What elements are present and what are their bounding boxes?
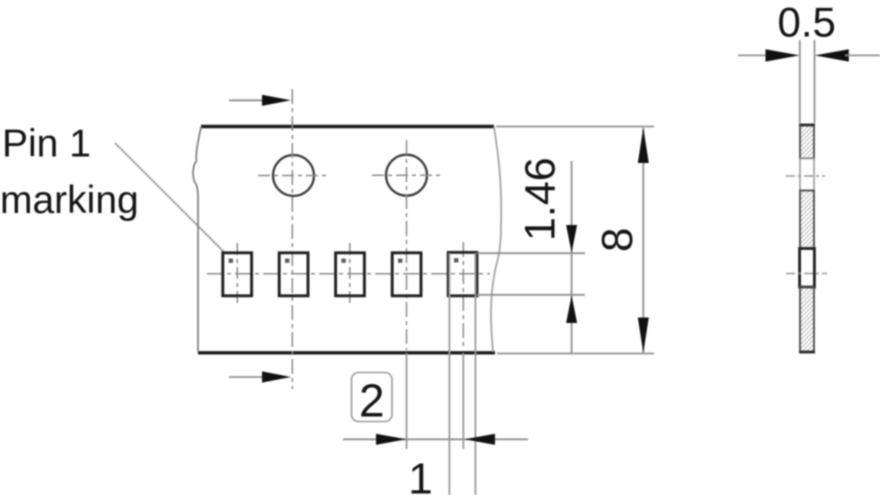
centerline vertical pocket P5 xyxy=(462,242,464,350)
centerline vertical H2 and pocket P4 xyxy=(406,140,408,350)
pocket P3 xyxy=(336,253,365,296)
dimension 8 extension line bottom xyxy=(497,353,654,355)
side view sprocket hole gap xyxy=(800,159,814,191)
svg-text:8: 8 xyxy=(593,228,642,252)
tape right break edge xyxy=(491,127,501,352)
dimension 8 xyxy=(593,128,649,354)
pocket P1 xyxy=(223,253,252,296)
dimension 1.46 xyxy=(517,157,578,354)
pocket P2 xyxy=(279,253,308,296)
leader line to pocket P1 xyxy=(115,143,224,252)
label Pin 1 marking xyxy=(0,123,139,223)
sprocket hole H1 xyxy=(273,155,314,196)
tape left break edge xyxy=(193,127,201,352)
centerline vertical pocket P3 xyxy=(349,243,351,304)
pin 1 mark in P3 xyxy=(341,259,345,263)
centerline horizontal H2 xyxy=(372,174,441,176)
dimension 8 extension line top xyxy=(496,126,654,128)
pin 1 mark in P2 xyxy=(285,259,289,263)
side view top cap xyxy=(799,124,815,127)
pocket P5 centerline extension below tape xyxy=(462,353,464,449)
side view extension line right xyxy=(814,40,816,123)
pocket P5 left edge extension line xyxy=(448,253,450,495)
pocket P4 xyxy=(392,253,421,296)
feed direction arrow bottom xyxy=(229,371,291,382)
centerline horizontal H1 xyxy=(258,175,330,177)
centerline horizontal pockets row xyxy=(207,273,490,275)
pin 1 mark in P4 xyxy=(398,259,402,263)
dimension 1.46 extension line bottom xyxy=(477,294,585,296)
side view pocket section xyxy=(800,249,815,288)
tape top edge xyxy=(201,125,494,128)
centerline vertical pocket P1 xyxy=(236,243,238,304)
side view tape section hatched block middle xyxy=(800,191,814,249)
side view tape section hatched block bottom xyxy=(800,287,814,352)
svg-text:Pin 1: Pin 1 xyxy=(2,123,91,166)
svg-text:marking: marking xyxy=(0,179,139,222)
dimension 2 line with outside arrows xyxy=(343,434,528,445)
feed direction arrow top xyxy=(229,95,291,106)
dimension 2 boxed value xyxy=(352,373,393,427)
pocket P5 xyxy=(448,252,477,295)
centerline vertical through H1 and pocket P2 xyxy=(291,89,293,389)
dimension 1.46 extension line top xyxy=(477,252,585,254)
side view centerline pocket xyxy=(786,273,827,275)
sprocket hole H2 xyxy=(386,155,427,196)
side view bottom cap xyxy=(799,351,815,354)
pocket P5 right edge extension line xyxy=(474,253,476,495)
side view tape section hatched block top xyxy=(800,125,814,159)
pin 1 mark in P5 xyxy=(454,258,458,262)
pin 1 mark in P1 xyxy=(229,259,233,263)
side view centerline sprocket xyxy=(786,175,825,177)
tape bottom edge xyxy=(198,351,495,354)
svg-text:0.5: 0.5 xyxy=(778,0,836,46)
svg-text:1.46: 1.46 xyxy=(517,157,565,241)
svg-text:2: 2 xyxy=(359,375,385,427)
svg-text:1: 1 xyxy=(408,455,432,495)
side view dimension 0.5 line with outside arrows xyxy=(738,49,880,61)
pocket P4 centerline extension below tape xyxy=(406,353,408,449)
side view extension line left xyxy=(799,40,801,123)
